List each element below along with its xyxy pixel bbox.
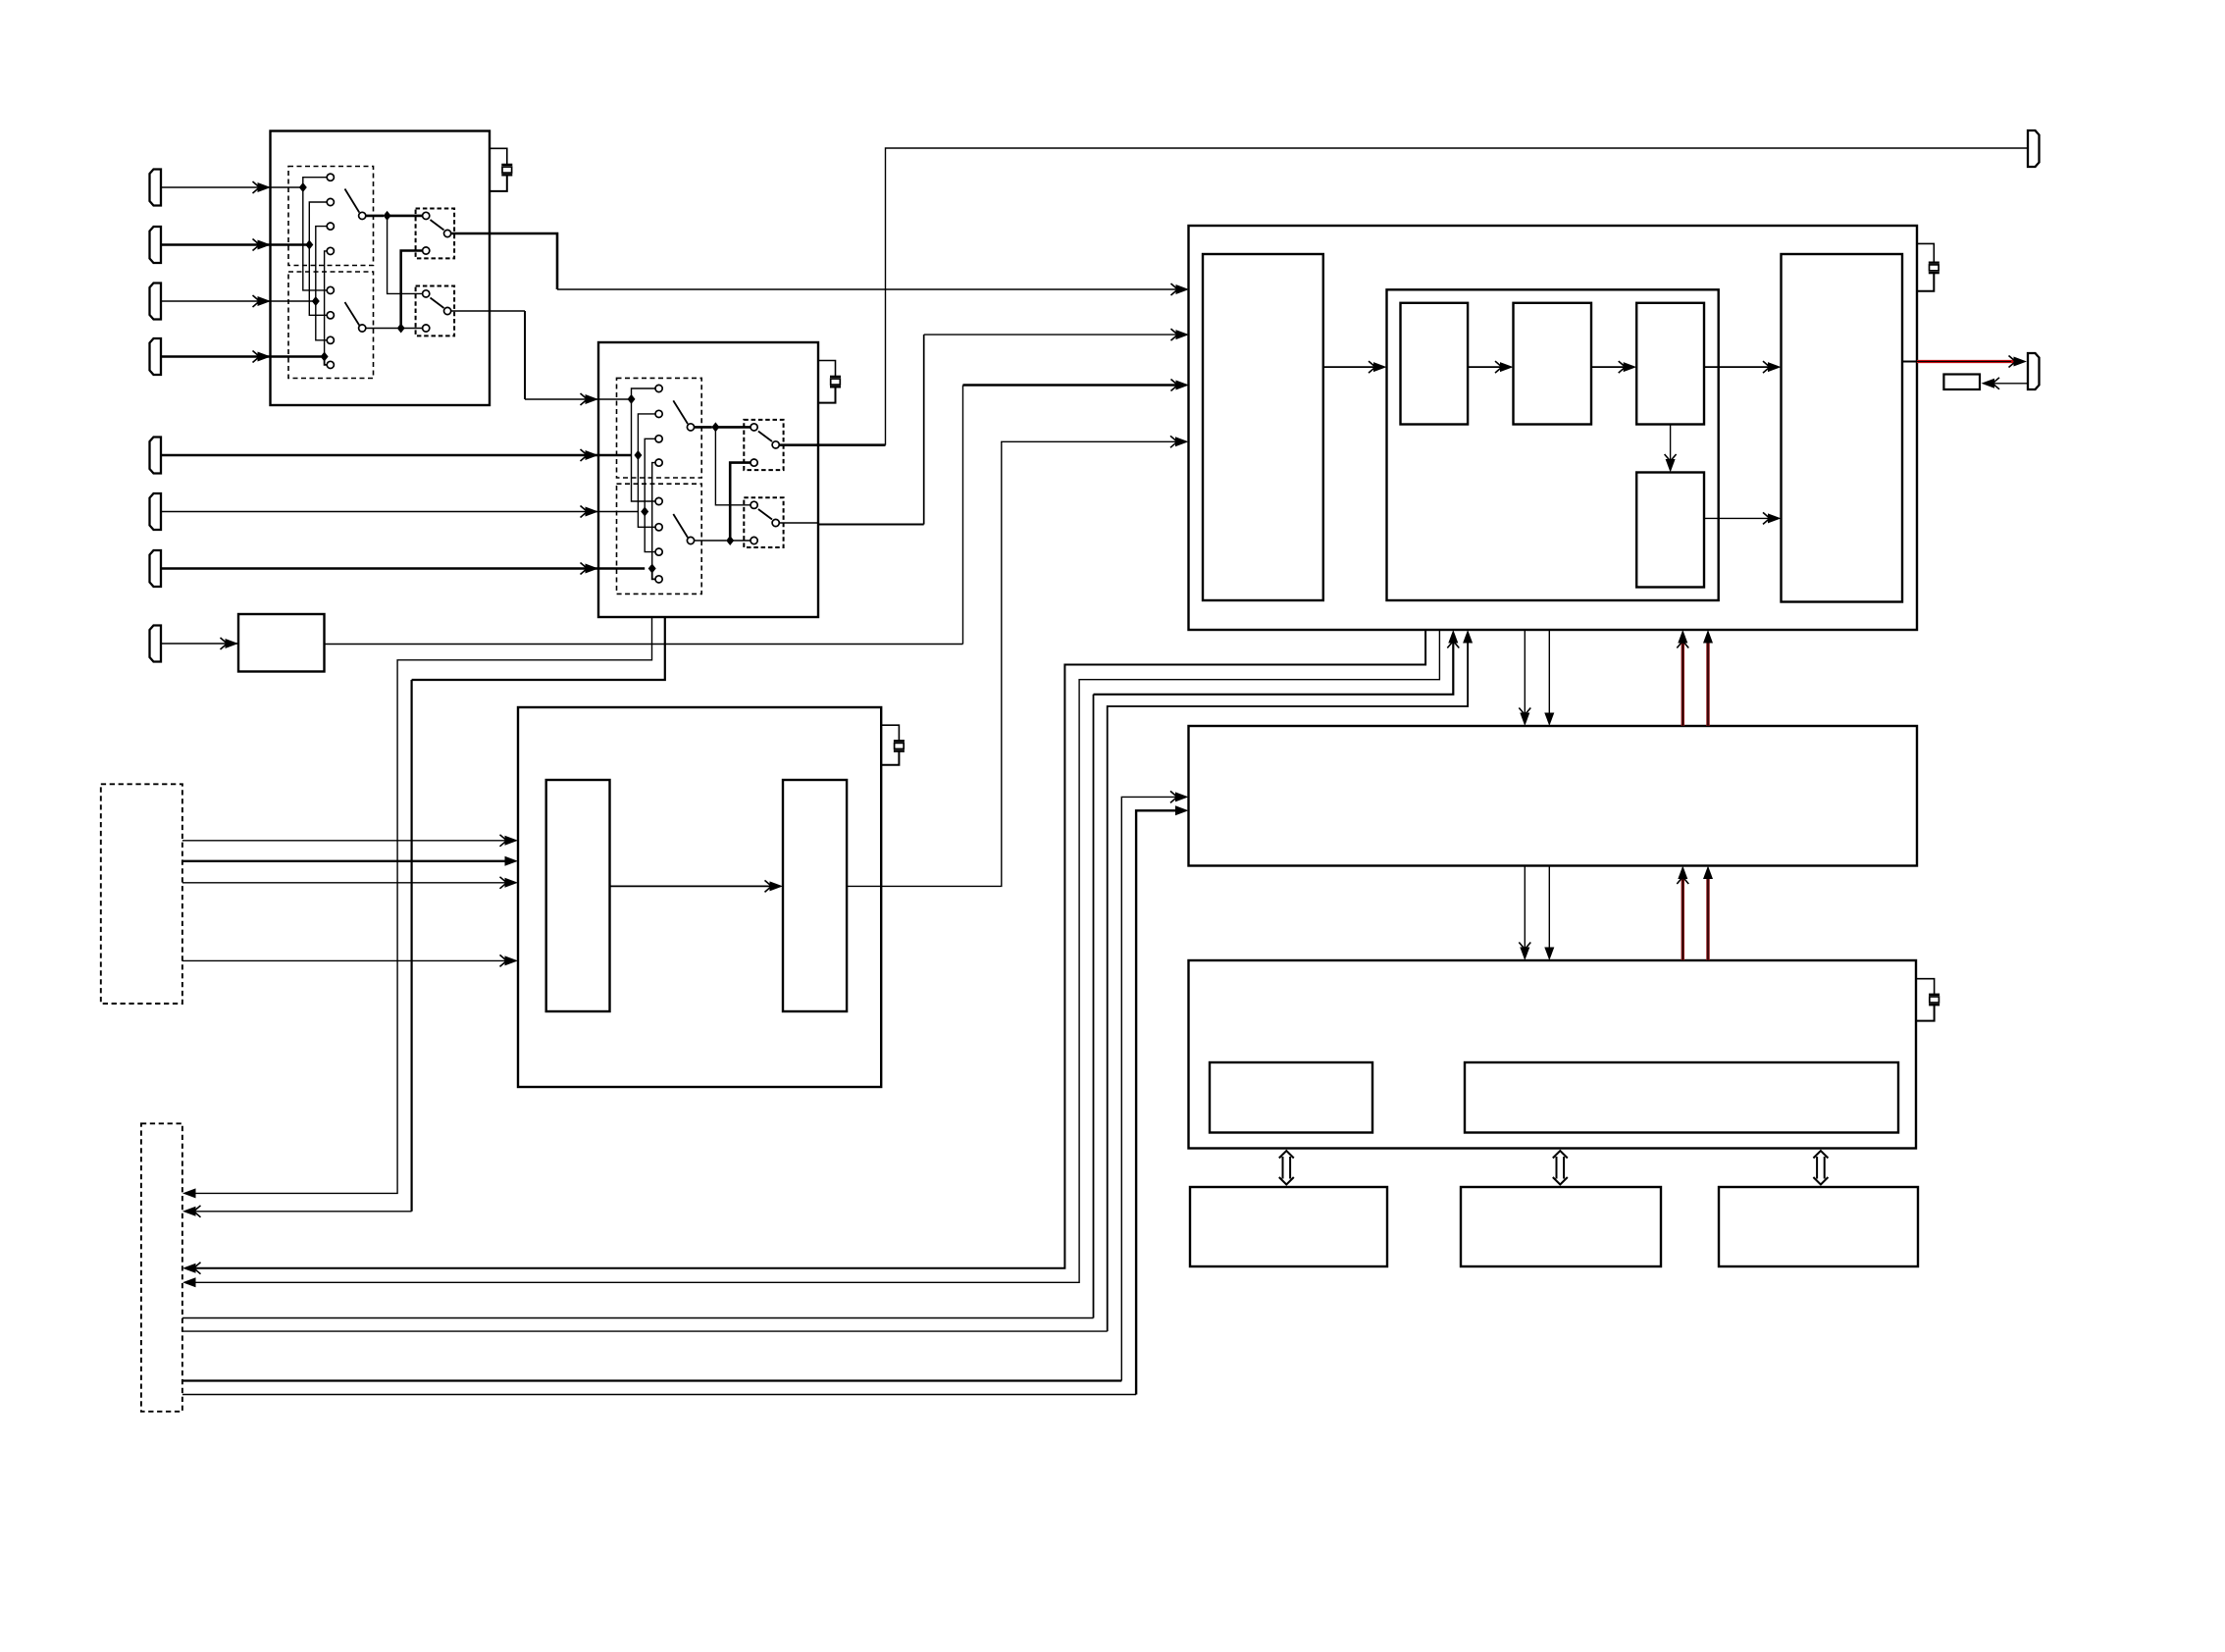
switch U1-S4 blade [431,298,444,309]
wire CN-A line3 to U6 [182,882,506,884]
wire U2 riser up 2 [638,414,655,455]
block MEM3 [1719,1187,1918,1266]
connector CN-A dashed block [101,784,182,1004]
wire U2 riser down 4 [652,569,655,580]
bus U5 to MEM2 [1556,1157,1558,1179]
node U2 junction 1 [628,394,636,404]
wire CN-A line2 to U6 [182,860,506,862]
contact U2 upper 4 [655,459,662,466]
switch U2-S2 common contact [687,537,694,543]
contact U1-S3 out [444,230,451,236]
connector CN6 [150,493,162,530]
contact U1-S4 out [444,307,451,314]
crystal X3 wiring [1917,243,1934,262]
wire CN5 output [161,454,632,457]
contact U1 upper 3 [327,223,334,230]
wire U3 stage B to C [1591,366,1625,368]
contact U1-S4 in1 [423,290,430,297]
wire U4 to U3 red 1 [1682,642,1684,726]
node U2 J1 [711,422,719,432]
contact U1 lower 3 [327,336,334,343]
contact U1 upper 2 [327,198,334,205]
wire U4 to U5 data 2 [1548,866,1550,950]
dashed switch U1-S4 box [416,286,455,336]
connector CN1 [150,170,162,206]
node U2 J2 [726,536,734,545]
contact U2 lower 4 [655,576,662,583]
block U5 sub B [1465,1062,1898,1133]
wire U6 internal [610,885,772,887]
wire U9 out to box3 in3 [325,644,963,645]
block U3 input interface [1203,254,1323,600]
wire U3 stage A to B [1468,366,1501,368]
block U5 sub A [1210,1062,1372,1133]
connector CN7 [150,550,162,587]
crystal X5 wiring [1916,979,1935,995]
wire U3 stage C down to D [1670,425,1672,461]
node U1 J1 [384,211,391,221]
crystal X2 [830,376,841,378]
block U3 stage A [1401,303,1469,425]
contact U2 upper 2 [655,410,662,417]
wire U4 to U5 data 1 [1524,866,1526,950]
block muting relay [1943,375,1980,390]
wire U2-S2 common to node J2 [695,540,727,542]
wire CN10 to muting relay [1994,383,2028,385]
switch U2-S1 blade [673,400,688,424]
wire U1 riser down 2 [309,245,327,316]
wire U2 riser up 4 [652,463,655,569]
contact U2 lower 2 [655,524,662,531]
switch U2-S1 common contact [687,424,694,431]
block U6 back-end [783,780,847,1011]
wire J2 up to S3 lower contact [401,251,423,329]
node U2 junction 4 [648,564,656,574]
wire U2 J1 to S3 contact [715,426,750,429]
dashed switch group U1-S1 [288,167,374,266]
wire J1 to S3 contact [388,215,423,218]
bus U5 to MEM3 [1816,1157,1818,1179]
contact U2 upper 1 [655,385,662,391]
node U1 junction 3 [312,296,320,306]
wire U3 stage C to out-if [1704,366,1769,368]
wire U2 J1 down to S4 contact [715,427,750,504]
wire U1 riser up 1 [303,178,327,187]
switch U2-S3 blade [758,432,772,442]
wire U2 riser down 3 [645,512,655,552]
switch U1-S1 blade [345,189,360,213]
crystal X3 [1929,262,1940,264]
wire U1 riser up 3 [316,227,327,301]
contact U2 upper 3 [655,436,662,442]
switch U2-S4 blade [758,509,772,520]
wire U1-S1 common to node J1 [366,215,384,218]
contact U2-S4 out [772,519,779,526]
dashed switch U1-S3 box [416,209,455,259]
contact U1 lower 4 [327,361,334,368]
wire U2 riser up 1 [632,388,656,399]
wire U3 to U4 data 2 [1548,630,1550,714]
wire U3 to U4 data 1 [1524,630,1526,714]
node U1 junction 4 [321,352,329,362]
wire CN-A line4 to U6 [182,959,506,961]
wire U1-S2 common to node J2 [366,328,397,330]
contact U1 upper 1 [327,174,334,181]
node U1 junction 2 [305,240,313,250]
wire U5 to U4 red 1 [1682,877,1684,960]
IC U3 main DSP box [1189,226,1918,630]
crystal X2 wiring [818,361,836,377]
IC U2 selector box [598,342,818,617]
node U2 junction 3 [641,507,648,517]
block U6 front-end [546,780,610,1011]
crystal X6 [894,740,905,742]
wire U1 riser down 1 [303,187,327,290]
wire U2 riser down 1 [632,399,656,501]
crystal X5 [1929,994,1940,996]
wire CN-B line6 to U3 [182,1330,1108,1332]
dashed switch group U2-S1 [617,378,702,478]
node U1 junction 1 [299,182,307,192]
switch U1-S3 blade [431,220,444,231]
switch U2-S2 blade [673,514,688,538]
connector CN8 [150,626,162,662]
wire U2-S1 common to node J1 [695,426,712,429]
crystal X1 [501,164,512,166]
wire J1 down to S4 contact [388,216,423,294]
block U3 output interface [1782,254,1903,602]
wire U2-S3 out to top-right connector [779,443,885,446]
block U3 stage D [1636,473,1704,588]
connector CN-B dashed block [141,1123,182,1412]
wire CN4 output [161,355,325,358]
wire CN3 output [161,300,316,302]
contact U1-S3 in2 [423,247,430,254]
wire CN8 output [161,643,238,645]
connector CN10 audio out [2028,353,2040,389]
switch U1-S2 blade [345,302,360,326]
connector CN5 [150,438,162,474]
wire U6 out to box3 in4 [847,441,1177,886]
wire CN-B line5 to U3 [182,1317,1094,1319]
wire U3 in-if to core [1323,366,1374,368]
IC U5 system CPU box [1189,960,1917,1149]
contact U2-S3 in2 [750,459,757,466]
IC U1 input selector box [271,131,491,406]
wire U3 stage D to out-if [1704,517,1769,519]
wire U3 red audio out [1902,361,1917,363]
dashed switch group U1-S2 [288,272,374,379]
connector CN2 [150,227,162,263]
wire U3 pin-a to CN-B line3 [192,630,1425,1268]
contact U2-S3 in1 [750,424,757,431]
wire U2 riser down 2 [638,455,655,527]
wire U2-S4 out to box3 in2 [779,522,818,524]
wire U3 pin-b to CN-B line4 [192,630,1439,1282]
contact U1-S4 in2 [423,325,430,332]
wire U2 pin2 to CN-B line2 [412,617,665,680]
node U1 J2 [397,324,405,334]
wire CN7 output [161,567,645,570]
wire CN1 output [161,186,303,188]
contact U1 lower 2 [327,312,334,319]
dashed switch group U2-S2 [617,484,702,594]
wire CN-A line1 to U6 [182,840,506,842]
contact U2 lower 3 [655,548,662,555]
wire U2 riser up 3 [645,439,655,511]
wire U5 to U4 red 2 [1706,877,1709,960]
wire CN-B line8 to U4 [182,1394,1136,1396]
node U2 junction 2 [634,450,642,460]
IC U6 decoder box [518,707,881,1087]
contact U2-S4 in1 [750,501,757,508]
contact U2-S3 out [772,441,779,448]
connector CN4 [150,338,162,375]
wire U1 riser up 4 [325,251,328,357]
wire U1 riser up 2 [309,202,327,245]
contact U1 upper 4 [327,247,334,254]
block MEM2 [1461,1187,1661,1266]
dashed switch U2-S4 box [744,497,783,547]
wire CN2 output [161,243,309,246]
crystal X6 wiring [881,725,899,741]
bus U5 to MEM1 [1282,1157,1284,1179]
block MEM1 [1190,1187,1387,1266]
contact U1-S3 in1 [423,212,430,219]
block U3 core container [1387,289,1719,600]
IC U9 buffer box [238,614,325,672]
contact U2-S4 in2 [750,537,757,543]
contact U1 lower 1 [327,286,334,293]
wire U1-S4 out to box2 in1 [451,310,525,312]
connector CN3 [150,284,162,320]
wire U1 riser down 3 [316,301,327,340]
wire J2 to S4 lower contact [401,328,423,330]
wire U2 pin1 to CN-B line1 [192,617,652,1193]
block U3 stage B [1514,303,1592,425]
wire U2 J2 up to S3 lower contact [730,463,750,541]
wire U1 riser down 4 [325,357,328,365]
wire U4 to U3 red 2 [1706,642,1709,726]
dashed switch U2-S3 box [744,420,783,470]
wire U1-S3 out to box3 in1 [451,233,557,289]
contact U2 lower 1 [655,497,662,504]
block U3 stage C [1636,303,1704,425]
crystal X1 wiring [490,148,507,165]
wire U2 J2 to S4 lower contact [730,540,750,542]
wire CN6 output [161,511,638,513]
connector CN9 top right [2028,130,2040,167]
switch U1-S2 common contact [359,325,366,332]
IC U4 audio interface box [1189,726,1918,866]
wire CN-B line7 to U4 [182,1379,1121,1381]
switch U1-S1 common contact [359,212,366,219]
